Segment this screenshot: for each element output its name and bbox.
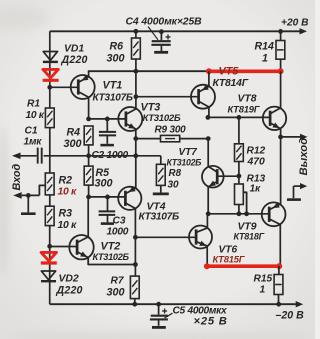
wire R15 bottom lead (278, 295, 280, 305)
wire VT6 collector up (206, 214, 208, 228)
ground bar of C2 (100, 144, 114, 147)
svg-text:VT3: VT3 (141, 102, 161, 114)
svg-text:1мк: 1мк (24, 137, 43, 148)
node +20V rail / R14 junction (278, 29, 283, 34)
diode VD2 D220 (41, 271, 56, 281)
svg-text:R6: R6 (110, 41, 124, 53)
polarity plus of C4 (166, 35, 171, 40)
ground bar of R8 (153, 192, 169, 195)
node VT5 base line junction (134, 94, 139, 99)
wire VT2 collector up (87, 197, 89, 237)
svg-text:300: 300 (64, 138, 82, 150)
wire left column bottom (R3 to bottom rail) (49, 226, 51, 305)
label VT6 (213, 245, 246, 265)
svg-text:1: 1 (260, 285, 266, 296)
label R13 1k (247, 174, 266, 195)
svg-text:300: 300 (107, 287, 125, 299)
svg-text:КТ819Г: КТ819Г (228, 104, 261, 115)
ground bar of C3 (101, 222, 114, 225)
label C3 1000 (107, 216, 129, 238)
resistor R3 (45, 206, 54, 225)
resistor R4 (84, 126, 93, 145)
node R13 bottom junction (237, 211, 242, 216)
wire R12 top lead (238, 117, 240, 143)
wire R6 bottom to VT3 collector (135, 59, 137, 109)
node R4-R5 / signal junction (86, 153, 91, 158)
node VT5 collector junction (206, 115, 211, 120)
capacitor C3 lead bottom (107, 216, 109, 223)
wire left column mid (R1 to R2 past C1 wire) (49, 128, 51, 173)
wire upper horizontal (VT1 emitter to VT5 emitter node) (88, 70, 209, 72)
ground bar output (287, 198, 301, 201)
resistor R7 (130, 276, 139, 299)
svg-text:30: 30 (168, 180, 180, 191)
transistor VT5 KT814G (191, 85, 215, 109)
capacitor C4 leads (160, 32, 162, 51)
svg-text:R7: R7 (111, 276, 125, 287)
svg-text:КТ818Г: КТ818Г (234, 232, 265, 242)
resistor R9 (161, 135, 180, 141)
label VD2 (56, 274, 83, 297)
wire R6 top lead (135, 31, 137, 38)
node R12 top junction (237, 115, 242, 120)
svg-text:Д220: Д220 (61, 54, 88, 66)
label VT1 (93, 80, 133, 104)
node bottom rail / R7 junction (132, 302, 137, 307)
wire VT9 collector down (279, 224, 281, 266)
wire VT4 base line (89, 196, 126, 198)
label R3 (58, 208, 78, 232)
diode VD1 D220 (43, 52, 58, 62)
label VT2 (93, 241, 130, 263)
wire R14 bottom lead (280, 59, 282, 71)
ground bar of C5 (152, 326, 166, 329)
node red right bottom (VT9 collector) (276, 263, 282, 269)
svg-text:Вход: Вход (11, 164, 23, 191)
capacitor C5 lead bottom (158, 320, 160, 326)
node bottom rail / R15 junction (276, 302, 281, 307)
svg-text:VD2: VD2 (59, 274, 79, 285)
wire +20V top rail (50, 28, 307, 34)
wire VT8 collector up (280, 71, 282, 108)
label R7 300 (107, 276, 125, 299)
svg-text:VD1: VD1 (64, 44, 84, 55)
label VT3 (141, 102, 181, 125)
svg-text:10 к: 10 к (26, 110, 45, 121)
label VT7 (167, 147, 202, 168)
svg-text:R2: R2 (59, 175, 73, 187)
wire VT6 emitter down (206, 246, 208, 266)
capacitor C1 plates (38, 148, 42, 164)
svg-text:VT1: VT1 (103, 80, 123, 92)
capacitor C2 lead bottom (106, 136, 108, 144)
svg-text:10 к: 10 к (58, 187, 78, 198)
label R9 300 (155, 125, 187, 136)
node red right (VT8 collector) (278, 68, 284, 74)
label R6 300 (107, 41, 125, 65)
svg-text:КТ3102Б: КТ3102Б (167, 158, 202, 168)
svg-text:+20 В: +20 В (281, 18, 308, 29)
svg-text:R3: R3 (59, 208, 73, 220)
node R9 right junction (206, 136, 211, 141)
svg-text:R8: R8 (169, 168, 182, 179)
power label +20V (281, 18, 308, 29)
label R4 300 (64, 127, 82, 151)
label R14 1 (255, 41, 275, 65)
transistor VT1 KT3107B (71, 75, 95, 99)
node C2 junction (105, 117, 110, 122)
wire input ground drop (27, 195, 29, 212)
label R2 (58, 175, 78, 198)
capacitor C5 plates (150, 316, 168, 320)
svg-text:КТ814Г: КТ814Г (213, 78, 249, 89)
svg-text:R4: R4 (67, 127, 81, 139)
svg-text:300: 300 (107, 53, 125, 65)
resistor R12 (235, 144, 244, 162)
wire driver base line (VT7 emitter to VT9 base) (208, 213, 269, 215)
svg-text:10 к: 10 к (58, 220, 78, 231)
svg-text:×25 В: ×25 В (194, 316, 228, 328)
node VT1 collector / VT3 base junction (86, 117, 91, 122)
node VT1 base junction (47, 85, 52, 90)
ground bar of C4 (154, 51, 168, 54)
svg-text:R12: R12 (247, 146, 266, 157)
ground bar input (21, 212, 36, 215)
wire red highlighted VT5 collector rail (209, 70, 281, 74)
label Vyhod (rotated) (298, 138, 310, 176)
wire VT7 emitter down (207, 187, 209, 214)
wire R15 top lead (278, 266, 280, 275)
wire VT5 base line (136, 96, 199, 98)
label R12 470 (247, 146, 266, 168)
capacitor C3 plates (99, 211, 116, 215)
wire -20V bottom rail (50, 301, 304, 307)
label VD1 (61, 44, 88, 67)
node R5 bottom junction (86, 195, 91, 200)
diode VD3 (red highlighted) (43, 69, 59, 80)
wire red highlighted VT6 collector rail (207, 264, 279, 268)
label VT5 (red) (213, 66, 249, 89)
transistor VT2 KT3102B (69, 235, 93, 259)
wire R8 bottom lead (160, 185, 162, 192)
svg-text:VT2: VT2 (101, 241, 121, 253)
svg-text:КТ3107Б: КТ3107Б (93, 93, 133, 104)
svg-text:R14: R14 (255, 41, 275, 53)
label R5 300 (95, 167, 113, 190)
input ground arm arrow (13, 192, 39, 199)
wire input ground arm step (39, 185, 45, 195)
svg-text:С3: С3 (113, 216, 126, 227)
resistor R13 (235, 184, 244, 205)
wire VT3-VT4 shared column (135, 130, 137, 189)
resistor R15 (274, 275, 283, 295)
svg-text:R9 300: R9 300 (155, 125, 187, 136)
wire R9 right lead (180, 138, 209, 140)
wire output line (281, 134, 308, 140)
resistor R8 (156, 164, 165, 185)
svg-text:1000: 1000 (107, 227, 129, 238)
wire left column top (rail to VD1/R1) (49, 31, 51, 108)
wire VT7 collector up (207, 139, 209, 167)
transistor VT8 KT819G (263, 107, 286, 130)
transistor VT4 KT3107B (118, 186, 141, 210)
label C5 value (173, 306, 229, 328)
node emitter column signal junction (133, 153, 138, 158)
svg-text:С1: С1 (25, 126, 38, 137)
node +20V rail / R6 junction (134, 29, 139, 34)
wire VT2 emitter down-right (88, 258, 135, 265)
node input ground junction (26, 193, 31, 198)
svg-text:КТ3102Б: КТ3102Б (143, 113, 181, 124)
node +20V rail / C4 junction (159, 29, 164, 34)
leader line C4 (148, 27, 158, 40)
power label -20V (276, 310, 305, 322)
wire R7 bottom lead (134, 299, 136, 305)
svg-text:VT7: VT7 (179, 147, 198, 158)
node VT7 base / R12-R13 junction (237, 174, 242, 179)
wire VT5 collector down (208, 107, 210, 117)
wire VT1 emitter up (88, 71, 90, 77)
label C4 value (126, 17, 203, 28)
wire VT6 base line (135, 236, 196, 238)
wire VT7 base right (217, 175, 239, 177)
wire output ground drop (293, 186, 295, 198)
capacitor C2 lead top (106, 119, 108, 132)
node R9 left junction (133, 136, 138, 141)
wire VT1 collector down (88, 97, 90, 119)
svg-text:Д220: Д220 (56, 285, 83, 297)
wire VT9 emitter up (to output) (280, 137, 282, 205)
node bottom rail / C5 junction (156, 302, 161, 307)
svg-text:КТ815Г: КТ815Г (213, 253, 246, 264)
diode VD4 (red highlighted) (41, 252, 57, 263)
wire VT5 emitter up (208, 71, 210, 86)
wire VT5-VT8 base line (208, 116, 270, 118)
label VT8 (228, 94, 261, 115)
transistor VT7 KT3102B (mirrored) (202, 166, 224, 188)
resistor R1 (45, 108, 54, 128)
leader line C5 (165, 313, 173, 318)
svg-text:R15: R15 (254, 274, 273, 285)
svg-text:R1: R1 (27, 99, 40, 110)
wire R4 bottom lead (88, 145, 90, 166)
node VT2 base junction (47, 244, 52, 249)
svg-text:КТ3107Б: КТ3107Б (139, 212, 179, 223)
wire VT8 emitter down (280, 129, 282, 137)
node C3 junction (105, 195, 110, 200)
wire VT2 base (50, 246, 77, 248)
node R6 bottom junction (134, 69, 139, 74)
wire R5 bottom lead (88, 185, 90, 197)
capacitor C3 lead top (107, 197, 109, 211)
svg-text:470: 470 (247, 157, 266, 168)
svg-text:КТ3102Б: КТ3102Б (93, 252, 130, 262)
node VT2 emitter junction (133, 262, 138, 267)
label R15 1 (254, 274, 273, 296)
node output junction (278, 135, 283, 140)
wire R13 wiper tap (243, 192, 246, 214)
resistor R5 (84, 166, 93, 185)
capacitor C5 lead top (158, 304, 160, 314)
svg-text:Выход: Выход (298, 138, 310, 176)
resistor R2 (45, 173, 54, 195)
wire C1 to emitter column (44, 155, 161, 157)
wire R8 top lead (160, 156, 162, 165)
svg-text:1к: 1к (250, 184, 261, 195)
output ground arrow (294, 183, 308, 189)
transistor VT9 KT818G (262, 202, 286, 226)
transistor VT3 KT3102B (118, 107, 142, 131)
node VT6 base branch junction (133, 235, 138, 240)
wire R12-R13 link (238, 162, 240, 185)
label C2 1000 (92, 150, 129, 161)
svg-text:–20 В: –20 В (276, 310, 305, 322)
svg-text:300: 300 (95, 178, 113, 190)
resistor R14 (276, 41, 285, 60)
node wiper junction (244, 211, 249, 216)
wire R9 left lead (136, 138, 161, 140)
wire VT3 base line (89, 118, 126, 120)
svg-text:VT5: VT5 (219, 66, 240, 78)
capacitor C2 plates (99, 132, 116, 136)
svg-text:1: 1 (262, 53, 268, 65)
input arrow Vhod (12, 153, 37, 160)
label R8 30 (168, 168, 182, 191)
svg-text:С4 4000мк×25В: С4 4000мк×25В (126, 17, 203, 28)
wire VT1 base (50, 86, 79, 88)
label R1 10k (26, 99, 45, 122)
wire R14 top lead (280, 31, 282, 40)
label VT9 (234, 222, 265, 242)
transistor VT6 KT815G (189, 226, 212, 249)
wire VT4 collector column down (134, 209, 136, 277)
capacitor C4 plates (151, 41, 170, 45)
label VT4 (139, 202, 179, 223)
resistor R6 (132, 38, 141, 59)
node VT7 emitter junction (206, 211, 211, 216)
node red left bottom (VT6 emitter) (204, 263, 210, 269)
label C1 1mk (24, 126, 43, 148)
node red left (VT5 emitter) (206, 68, 212, 74)
wire R13 bottom lead (238, 205, 240, 214)
wire left column R2-R3 gap (49, 195, 51, 206)
polarity plus of C5 (162, 309, 167, 314)
label Vhod (rotated) (11, 164, 23, 191)
